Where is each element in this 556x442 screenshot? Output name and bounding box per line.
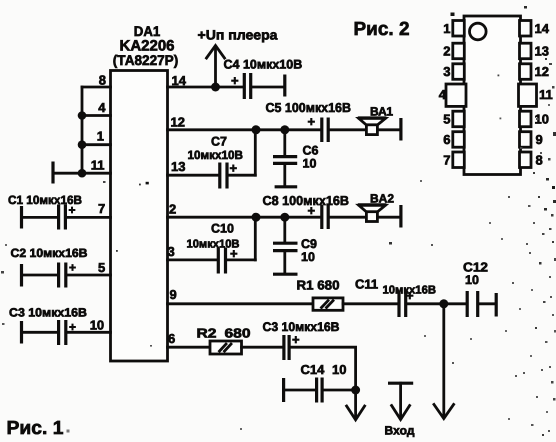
wire R1 to C11 xyxy=(343,302,397,305)
capacitor C9 xyxy=(273,217,317,274)
svg-text:7: 7 xyxy=(98,201,105,216)
power arrow +Un xyxy=(198,28,278,88)
IC package outline (Рис. 2) xyxy=(464,16,521,175)
svg-text:+: + xyxy=(406,288,414,303)
svg-text:C3 10мкх16В: C3 10мкх16В xyxy=(9,306,87,320)
package pin 7 xyxy=(453,152,465,168)
node pin11-bus junction xyxy=(78,169,87,178)
capacitor C4 xyxy=(224,58,303,100)
svg-text:C5 100мкх16В: C5 100мкх16В xyxy=(266,100,352,115)
ground arrow middle xyxy=(347,390,365,420)
svg-text:8: 8 xyxy=(536,153,543,168)
svg-text:+: + xyxy=(69,203,76,217)
wire left bus vertical xyxy=(81,87,84,173)
resistor R1 xyxy=(297,278,344,311)
wire pin 2 row xyxy=(168,216,321,219)
svg-text:C10: C10 xyxy=(211,222,234,236)
svg-text:C3 10мкх16В: C3 10мкх16В xyxy=(263,320,340,334)
svg-text:2: 2 xyxy=(443,44,450,59)
resistor R2 xyxy=(197,326,251,355)
svg-text:C2 10мкх16В: C2 10мкх16В xyxy=(11,246,88,260)
svg-text:+: + xyxy=(292,332,300,347)
svg-text:13: 13 xyxy=(171,159,185,174)
IC DA1 body xyxy=(111,23,179,361)
svg-text:11: 11 xyxy=(91,158,105,173)
package pin 8 xyxy=(520,152,532,168)
capacitor C11 xyxy=(355,277,436,318)
svg-text:+Uп плеера: +Uп плеера xyxy=(198,28,278,43)
speaker BA2 xyxy=(358,192,395,222)
capacitor C12 xyxy=(463,260,488,318)
svg-text:10: 10 xyxy=(90,318,104,333)
svg-text:R1 680: R1 680 xyxy=(297,278,340,293)
wire pin 4 xyxy=(82,114,111,117)
svg-text:+: + xyxy=(231,73,239,88)
capacitor C1 xyxy=(8,193,111,230)
node supply junction xyxy=(211,83,220,92)
wire pin 1 xyxy=(82,143,111,146)
terminal bar left of pin 11 xyxy=(51,162,54,184)
wire pin 11 xyxy=(53,172,111,175)
capacitor C3 xyxy=(9,306,111,346)
svg-text:+: + xyxy=(308,203,316,218)
wire C11 to C12 xyxy=(408,302,466,305)
svg-text:10: 10 xyxy=(465,273,479,287)
package pin 2 xyxy=(453,43,465,59)
svg-text:12: 12 xyxy=(535,64,549,79)
svg-text:1: 1 xyxy=(443,21,450,36)
svg-text:+: + xyxy=(69,320,76,334)
svg-text:1: 1 xyxy=(97,129,104,144)
svg-text:Рис. 1: Рис. 1 xyxy=(7,418,64,439)
node C14 junction xyxy=(351,386,360,395)
svg-text:13: 13 xyxy=(535,44,549,59)
svg-text:6: 6 xyxy=(168,331,175,346)
package pin 1 xyxy=(453,21,465,37)
svg-text:4: 4 xyxy=(98,100,106,115)
wire R2 to C3b xyxy=(242,346,283,349)
capacitor C7 xyxy=(168,130,256,189)
input terminal Вход xyxy=(385,383,415,437)
wire pin 9 row xyxy=(168,302,314,305)
wire pin12 row to BA1 xyxy=(330,128,401,131)
terminal bar right end xyxy=(495,293,498,317)
package pin 9 xyxy=(520,132,532,148)
package pin 14 xyxy=(520,21,532,37)
svg-text:R2: R2 xyxy=(197,326,217,341)
wire pin2 row to BA2 xyxy=(330,216,401,219)
svg-text:10: 10 xyxy=(301,250,315,264)
wire pin 8 to left bus xyxy=(82,86,111,89)
svg-text:C7: C7 xyxy=(211,135,227,149)
svg-text:+: + xyxy=(230,161,238,176)
svg-text:680: 680 xyxy=(225,326,251,341)
capacitor C2 xyxy=(11,246,111,288)
svg-text:11: 11 xyxy=(539,87,553,102)
capacitor C10 xyxy=(168,217,256,273)
svg-text:Вход: Вход xyxy=(385,424,415,438)
terminal bar BA2 row end xyxy=(399,205,402,228)
svg-text:4: 4 xyxy=(439,87,447,102)
wire C3b to corner xyxy=(291,347,356,390)
svg-text:Рис. 2: Рис. 2 xyxy=(354,19,410,40)
capacitor C6 xyxy=(273,130,319,187)
svg-text:9: 9 xyxy=(170,287,177,302)
svg-text:7: 7 xyxy=(443,153,450,168)
wire pin 12 row xyxy=(168,128,321,131)
ground arrow right xyxy=(434,304,454,419)
svg-text:C9: C9 xyxy=(301,237,317,251)
svg-text:14: 14 xyxy=(535,21,550,36)
svg-text:8: 8 xyxy=(99,73,106,88)
svg-text:10: 10 xyxy=(332,362,346,377)
node C6 junction xyxy=(280,125,289,134)
package pin 4 xyxy=(446,84,466,106)
package pin 10 xyxy=(520,111,532,127)
node C7 junction xyxy=(252,125,261,134)
wire pin 14 row xyxy=(168,86,244,89)
svg-text:3: 3 xyxy=(443,64,450,79)
capacitor C3 (input) xyxy=(263,320,340,360)
svg-text:C14: C14 xyxy=(301,362,326,377)
package pin 6 xyxy=(453,132,465,148)
svg-text:3: 3 xyxy=(168,244,175,259)
svg-text:C4 10мкх10В: C4 10мкх10В xyxy=(224,58,303,72)
wire C12 to end xyxy=(480,302,496,305)
package pin 13 xyxy=(520,43,532,59)
svg-text:C8 100мкх16В: C8 100мкх16В xyxy=(263,193,350,208)
capacitor C5 xyxy=(266,100,352,142)
node pin4-bus junction xyxy=(78,111,87,120)
node input junction xyxy=(439,299,448,308)
capacitor C14 xyxy=(284,362,356,403)
wire pin14 row after C4 xyxy=(253,86,285,89)
node pin1-bus junction xyxy=(78,140,87,149)
package pin 12 xyxy=(520,64,532,80)
package pin 5 xyxy=(453,111,465,127)
svg-text:(ТА8227Р): (ТА8227Р) xyxy=(113,52,179,68)
terminal bar BA1 row end xyxy=(399,118,402,141)
node C10 junction xyxy=(252,213,261,222)
package pin 11 xyxy=(519,84,537,106)
svg-text:+: + xyxy=(308,114,316,129)
svg-text:9: 9 xyxy=(536,132,543,147)
package pin 3 xyxy=(453,64,465,80)
svg-text:5: 5 xyxy=(98,260,105,275)
svg-text:5: 5 xyxy=(443,112,450,127)
svg-text:2: 2 xyxy=(169,202,176,217)
svg-text:C6: C6 xyxy=(303,144,319,158)
svg-text:C11: C11 xyxy=(355,277,378,292)
node C9 junction xyxy=(280,213,289,222)
svg-text:10: 10 xyxy=(303,157,317,171)
terminal bar supply row end xyxy=(283,75,286,97)
svg-text:+: + xyxy=(69,261,76,275)
speaker BA1 xyxy=(358,105,394,135)
wire pin 6 row xyxy=(168,346,211,349)
capacitor C8 xyxy=(263,193,350,229)
svg-text:12: 12 xyxy=(171,115,185,130)
svg-text:6: 6 xyxy=(443,132,450,147)
